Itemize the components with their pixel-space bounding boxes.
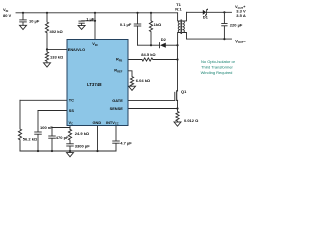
transformer T1 core (180, 20, 183, 34)
capacitor 4.7uF INTVCC (113, 141, 120, 151)
wire SENSE (128, 108, 178, 110)
resistor 24.9k VC (68, 129, 71, 143)
wire VC phase lead branch (52, 128, 70, 136)
svg-text:3300 pF: 3300 pF (75, 143, 90, 148)
svg-text:402 kΩ: 402 kΩ (50, 29, 64, 34)
wire GND pin (97, 126, 99, 152)
node VIN rail junction clamp R (150, 12, 152, 14)
svg-text:80 V: 80 V (3, 13, 12, 18)
diode D1 output schottky (203, 9, 232, 16)
wire switch node vertical (177, 45, 179, 91)
node rail SS junction (37, 150, 39, 152)
wire secondary top to D1 (187, 11, 203, 13)
transistor Q1 MOSFET (175, 91, 178, 109)
capacitor 0.1uF clamp (134, 13, 141, 45)
svg-text:470 pF: 470 pF (56, 135, 69, 140)
resistor 133k divider bottom (45, 49, 48, 62)
node rail 470p junction (51, 150, 53, 152)
capacitor 100nF SS (35, 111, 42, 152)
svg-text:D2: D2 (161, 37, 167, 42)
svg-text:TC: TC (69, 98, 74, 103)
node clamp R bottom (150, 44, 152, 46)
node rail VC junction (69, 150, 71, 152)
wire EN/UVLO (47, 48, 67, 50)
transformer T1 primary winding (178, 13, 181, 45)
resistor 1k clamp (149, 13, 152, 45)
svg-text:N:1: N:1 (175, 7, 182, 12)
svg-text:EN/UVLO: EN/UVLO (68, 47, 85, 52)
svg-text:SS: SS (69, 108, 75, 113)
wire GATE (128, 99, 175, 101)
capacitor 470pF VC lead (49, 136, 56, 151)
ground bottom rail (67, 151, 74, 157)
capacitor 1uF (79, 21, 84, 25)
transformer T1 secondary winding (182, 12, 186, 39)
wire secondary bottom VOUT- (187, 38, 232, 40)
node switch node clamp junction (176, 44, 178, 46)
capacitor 3300pF VC (67, 144, 74, 151)
node VIN rail junction IC (94, 12, 96, 14)
wire TC (20, 99, 67, 101)
svg-text:84.5 kΩ: 84.5 kΩ (141, 52, 156, 57)
node RFB switch node junction (176, 58, 178, 60)
node output cap bottom (223, 38, 225, 40)
svg-text:0.012 Ω: 0.012 Ω (184, 118, 199, 123)
svg-text:No Opto-Isolator or: No Opto-Isolator or (201, 59, 236, 64)
wire SS (38, 110, 67, 112)
svg-text:3.5 A: 3.5 A (236, 13, 246, 18)
node rail GND junction (96, 150, 98, 152)
svg-text:56.2 kΩ: 56.2 kΩ (23, 136, 38, 141)
svg-text:Winding Required: Winding Required (201, 70, 233, 75)
svg-text:Third Transformer: Third Transformer (201, 64, 233, 69)
node 1uF branch junction (94, 20, 96, 22)
resistor 0.012 ohm sense (176, 109, 179, 123)
resistor 84.5k RFB (128, 58, 178, 61)
wire VC pin (69, 126, 71, 130)
svg-text:0.1 µF: 0.1 µF (120, 22, 132, 27)
node output cap top (223, 11, 225, 13)
resistor 402k divider top (45, 13, 48, 50)
wire 1uF branch (82, 20, 95, 22)
svg-text:6.04 kΩ: 6.04 kΩ (136, 78, 151, 83)
svg-text:10 µF: 10 µF (29, 18, 40, 23)
svg-text:GATE: GATE (112, 98, 123, 103)
svg-text:LT3748: LT3748 (87, 82, 102, 87)
node VIN rail junction R1 (46, 12, 48, 14)
node EN/UVLO divider (46, 48, 48, 50)
svg-text:133 kΩ: 133 kΩ (50, 54, 64, 59)
diode D2 clamp (160, 43, 178, 48)
wire VIN pin stub (94, 13, 96, 40)
svg-text:VOUT−: VOUT− (235, 38, 246, 44)
svg-text:GND: GND (93, 120, 102, 125)
ground divider (44, 63, 51, 67)
wire INTVCC pin (115, 126, 117, 141)
svg-text:100 nF: 100 nF (40, 125, 53, 130)
svg-text:Q1: Q1 (181, 89, 187, 94)
node VIN rail junction clamp C (136, 12, 138, 14)
wire bottom ground rail (20, 150, 116, 152)
svg-text:1kΩ: 1kΩ (154, 22, 162, 27)
capacitor 220uF output (222, 12, 227, 39)
svg-text:D1: D1 (203, 15, 209, 20)
node sense junction (176, 107, 178, 109)
capacitor 10uF input (20, 13, 27, 25)
ground 1uF (78, 25, 85, 29)
resistor 6.04k RREF (128, 71, 134, 86)
ground input cap (20, 25, 27, 29)
node VIN rail junction C1 (22, 12, 24, 14)
svg-text:4.7 µF: 4.7 µF (120, 141, 132, 146)
svg-text:24.9 kΩ: 24.9 kΩ (75, 131, 90, 136)
wire clamp bottom (138, 44, 160, 46)
svg-text:SENSE: SENSE (110, 106, 124, 111)
ground sense resistor (174, 122, 181, 126)
wire top input rail (16, 12, 178, 14)
resistor 56.2k TC (18, 100, 21, 151)
svg-text:220 µF: 220 µF (230, 22, 243, 27)
op-amp U1 LT3748 controller block (67, 40, 128, 126)
note annotation text (201, 59, 236, 75)
svg-text:1 µF: 1 µF (86, 17, 95, 22)
ground RREF (129, 86, 136, 90)
